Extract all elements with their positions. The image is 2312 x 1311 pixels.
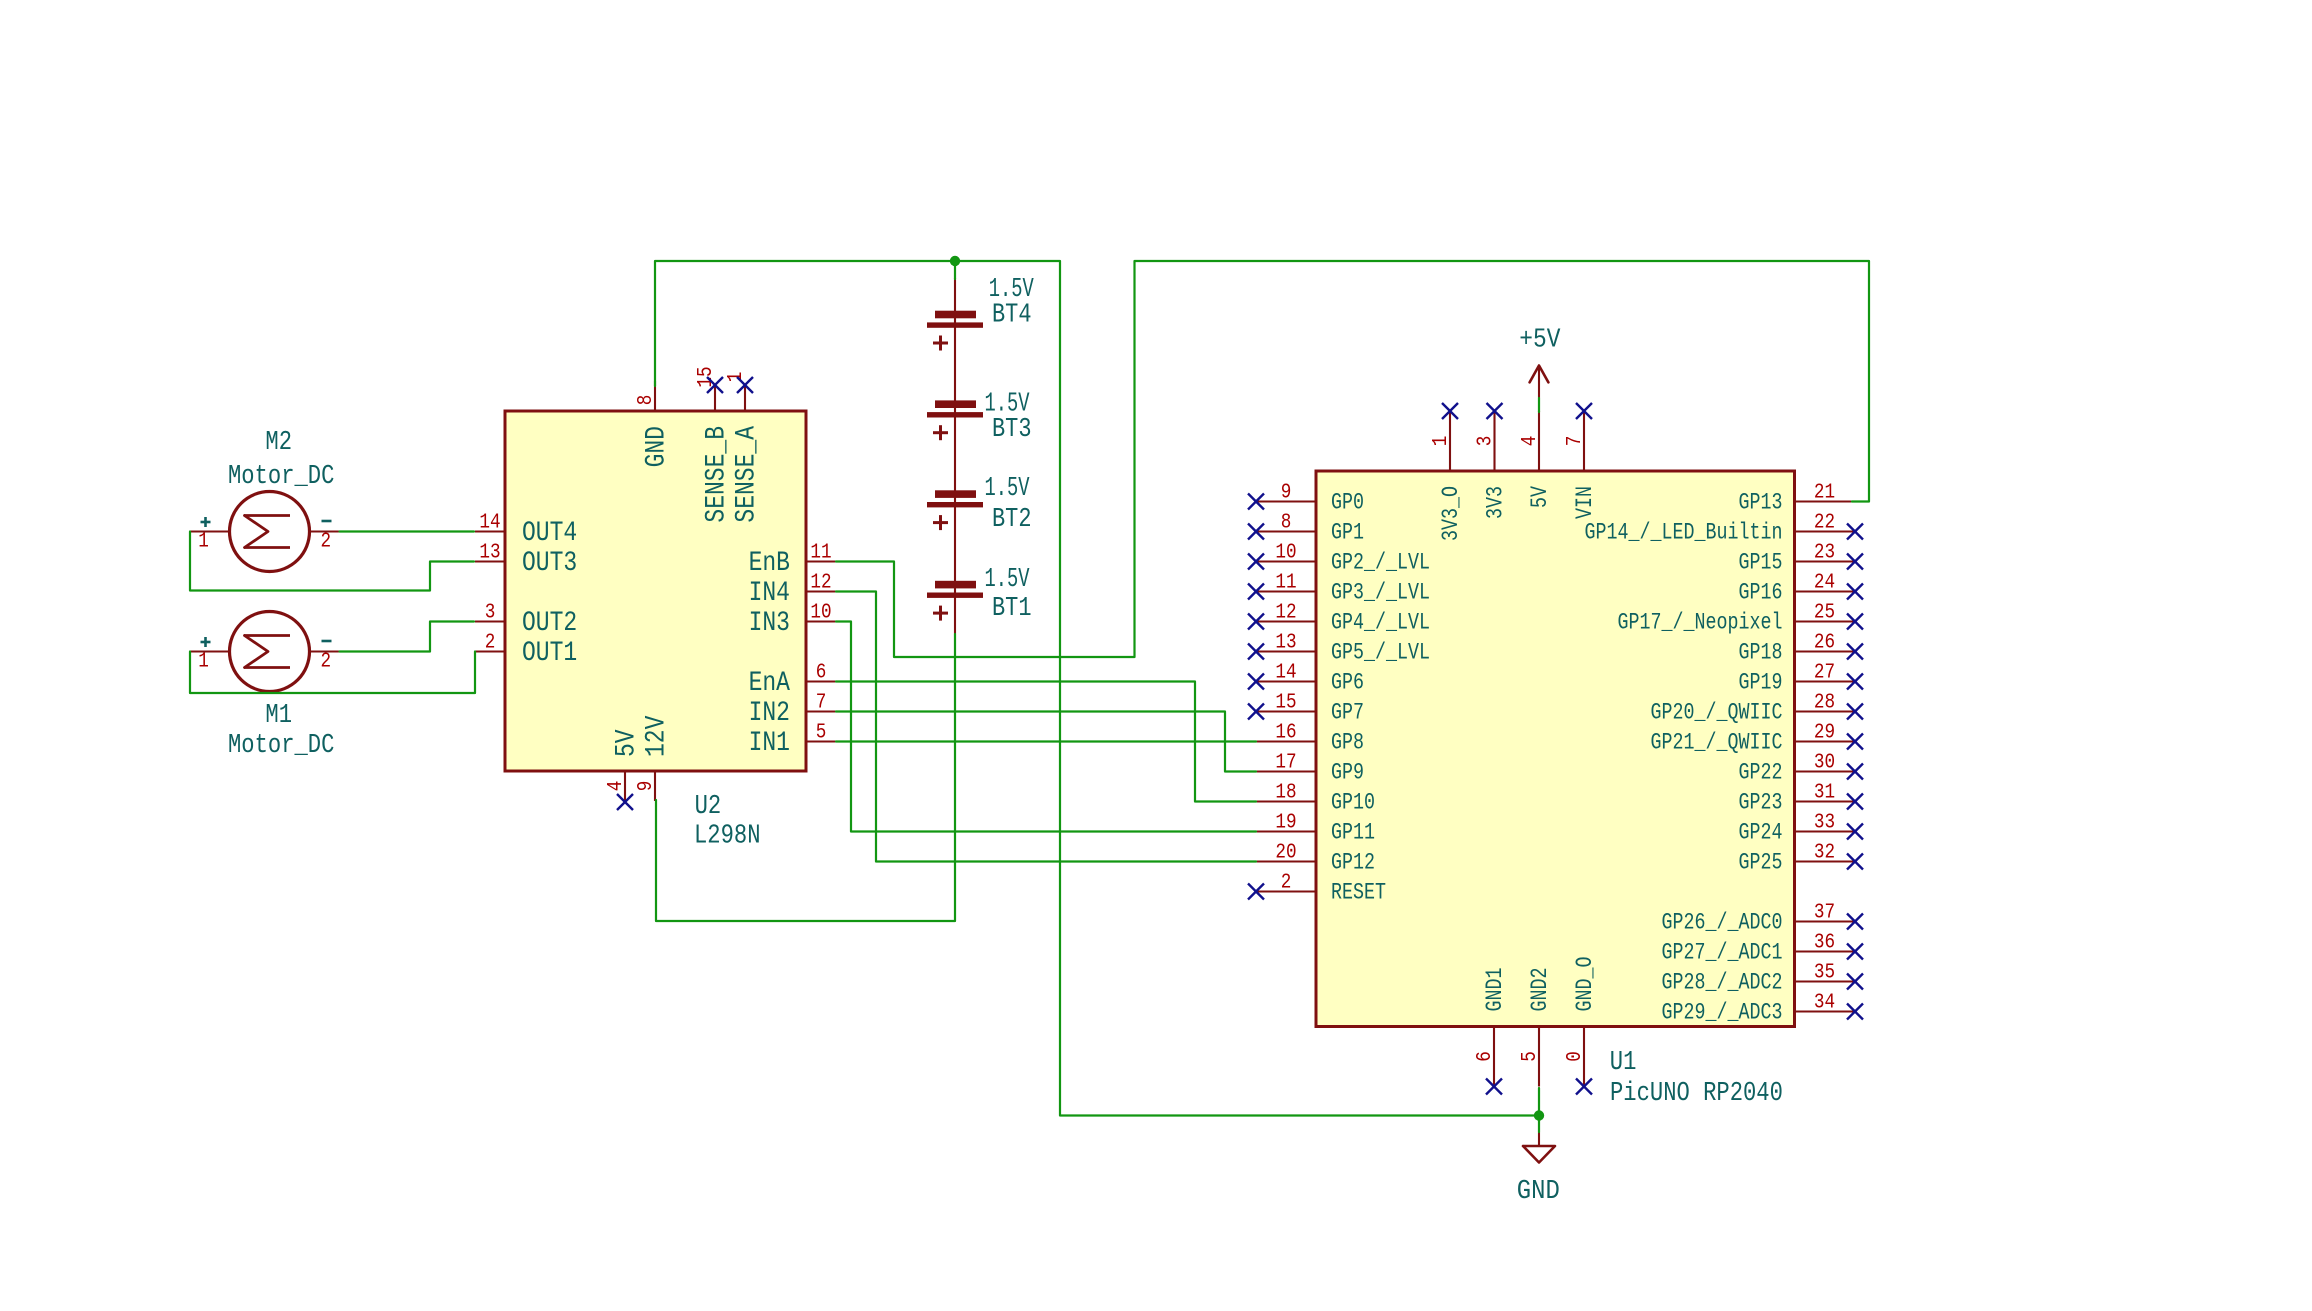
svg-text:5: 5 [1519, 1051, 1542, 1062]
svg-text:GP20_/_QWIIC: GP20_/_QWIIC [1651, 700, 1783, 726]
svg-text:26: 26 [1814, 632, 1835, 655]
svg-text:7: 7 [1564, 436, 1587, 447]
svg-text:BT3: BT3 [992, 415, 1032, 445]
svg-text:GP25: GP25 [1739, 850, 1783, 876]
svg-text:IN1: IN1 [749, 728, 790, 759]
svg-text:GND1: GND1 [1482, 968, 1508, 1012]
U1 pin 32 GP25 [1739, 842, 1855, 876]
no-connect U1 pin 29 GP21_/_QWIIC [1847, 734, 1863, 750]
U1 pin 20 GP12 [1256, 842, 1375, 876]
no-connect U1 pin 32 GP25 [1847, 854, 1863, 870]
U1 pin 25 GP17_/_Neopixel [1618, 602, 1855, 636]
svg-text:M1: M1 [265, 701, 292, 731]
U2 pin 1 SENSE_A (top) [725, 372, 763, 523]
U1 pin 7 VIN (top) [1564, 411, 1598, 519]
svg-text:29: 29 [1814, 722, 1835, 745]
no-connect U1 top pin 7 [1576, 403, 1592, 419]
battery cell BT2 [927, 490, 983, 530]
svg-text:5V: 5V [612, 729, 643, 757]
svg-text:IN3: IN3 [749, 608, 790, 639]
svg-text:13: 13 [479, 542, 500, 565]
svg-text:22: 22 [1814, 512, 1835, 535]
svg-text:IN2: IN2 [749, 698, 790, 729]
battery cell BT4 [927, 311, 983, 351]
svg-text:GP15: GP15 [1739, 550, 1783, 576]
svg-text:20: 20 [1275, 842, 1296, 865]
no-connect U1 pin 33 GP24 [1847, 824, 1863, 840]
svg-text:37: 37 [1814, 902, 1835, 925]
U1 pin 24 GP16 [1739, 572, 1855, 606]
svg-text:24: 24 [1814, 572, 1835, 595]
BT4 reference designator [992, 301, 1032, 331]
svg-text:GP4_/_LVL: GP4_/_LVL [1331, 610, 1430, 636]
no-connect U1 pin 8 GP1 [1248, 524, 1264, 540]
wire U2 IN4 pin 12 to U1 GP12 pin 20 [836, 592, 1256, 862]
no-connect U1 top pin 3 [1487, 403, 1503, 419]
svg-text:GP3_/_LVL: GP3_/_LVL [1331, 580, 1430, 606]
svg-text:2: 2 [1281, 872, 1292, 895]
svg-text:GP8: GP8 [1331, 730, 1364, 756]
U1 pin 36 GP27_/_ADC1 [1662, 932, 1855, 966]
U1 pin 31 GP23 [1739, 782, 1855, 816]
wire M1 pin 2 to U2 OUT2 pin 3 [340, 622, 475, 652]
svg-text:2: 2 [321, 650, 332, 673]
U1 pin 21 GP13 [1739, 482, 1855, 516]
BT4 value 1.5V [989, 275, 1035, 305]
U1 pin 17 GP9 [1256, 752, 1364, 786]
svg-text:25: 25 [1814, 602, 1835, 625]
U2 pin 13 OUT3 [475, 542, 577, 580]
svg-text:5V: 5V [1527, 486, 1553, 508]
svg-text:EnA: EnA [749, 668, 791, 699]
U1 pin 2 RESET [1256, 872, 1386, 906]
U1 pin 18 GP10 [1256, 782, 1375, 816]
svg-text:15: 15 [1275, 692, 1296, 715]
svg-text:GP6: GP6 [1331, 670, 1364, 696]
wire U2 IN3 pin 10 to U1 GP11 pin 19 [836, 622, 1256, 832]
svg-text:12: 12 [1275, 602, 1296, 625]
svg-text:RESET: RESET [1331, 880, 1386, 906]
junction at GND symbol (node GND) [1534, 1110, 1544, 1120]
M1 reference designator [265, 701, 292, 731]
U2 pin 2 OUT1 [475, 632, 577, 670]
motor M1 (Motor_DC) [190, 612, 340, 692]
svg-text:21: 21 [1814, 482, 1835, 505]
svg-text:14: 14 [1275, 662, 1296, 685]
U1 pin 34 GP29_/_ADC3 [1662, 992, 1855, 1026]
U1 value PicUNO RP2040 [1610, 1079, 1783, 1109]
svg-text:GP18: GP18 [1739, 640, 1783, 666]
svg-text:GP28_/_ADC2: GP28_/_ADC2 [1662, 970, 1783, 996]
svg-text:GND2: GND2 [1527, 968, 1553, 1012]
svg-text:3: 3 [1475, 436, 1498, 447]
U2 reference designator [695, 792, 722, 822]
svg-text:8: 8 [1281, 512, 1292, 535]
svg-text:EnB: EnB [749, 548, 790, 579]
U1 pin 8 GP1 [1256, 512, 1364, 546]
svg-text:GP24: GP24 [1739, 820, 1783, 846]
no-connect U1 bottom pin 6 [1486, 1079, 1502, 1095]
svg-text:GP19: GP19 [1739, 670, 1783, 696]
U2 pin 4 5V (bottom) [605, 729, 643, 801]
svg-text:GP22: GP22 [1739, 760, 1783, 786]
U2 pin 15 SENSE_B (top) [695, 366, 733, 522]
wire U2 pin 8 GND to junction above battery [655, 261, 955, 386]
svg-text:GP16: GP16 [1739, 580, 1783, 606]
wire M1 pin 1 to U2 OUT1 pin 2 [190, 652, 475, 694]
no-connect U1 pin 37 GP26_/_ADC0 [1847, 914, 1863, 930]
svg-text:4: 4 [605, 781, 628, 792]
battery cell BT3 [927, 400, 983, 440]
svg-text:1: 1 [198, 650, 209, 673]
no-connect U1 pin 35 GP28_/_ADC2 [1847, 974, 1863, 990]
no-connect U1 pin 10 GP2_/_LVL [1248, 554, 1264, 570]
U1 reference designator [1610, 1048, 1637, 1078]
svg-text:BT4: BT4 [992, 301, 1032, 331]
svg-text:PicUNO RP2040: PicUNO RP2040 [1610, 1079, 1783, 1109]
wire junction to battery BT4 + terminal [954, 261, 956, 279]
U1 pin 27 GP19 [1739, 662, 1855, 696]
battery cell BT1 [927, 581, 983, 621]
U1 pin 0 GND_O (bottom) [1564, 957, 1598, 1087]
svg-text:16: 16 [1275, 722, 1296, 745]
no-connect U1 pin 15 GP7 [1248, 704, 1264, 720]
U1 pin 28 GP20_/_QWIIC [1651, 692, 1855, 726]
junction at battery + / GND net (node +6V) [950, 256, 960, 266]
svg-text:23: 23 [1814, 542, 1835, 565]
U1 pin 10 GP2_/_LVL [1256, 542, 1430, 576]
svg-text:GP23: GP23 [1739, 790, 1783, 816]
svg-text:GP9: GP9 [1331, 760, 1364, 786]
no-connect U1 pin 14 GP6 [1248, 674, 1264, 690]
svg-text:12: 12 [810, 572, 831, 595]
no-connect U1 pin 36 GP27_/_ADC1 [1847, 944, 1863, 960]
U1 pin 12 GP4_/_LVL [1256, 602, 1430, 636]
U1 pin 16 GP8 [1256, 722, 1364, 756]
U1 pin 4 5V (top) [1519, 411, 1553, 508]
no-connect U1 top pin 1 [1442, 403, 1458, 419]
svg-text:7: 7 [816, 692, 827, 715]
svg-text:14: 14 [479, 512, 500, 535]
svg-text:IN4: IN4 [749, 578, 790, 609]
BT3 reference designator [992, 415, 1032, 445]
wire battery + rail to GND junction (net GND) [955, 261, 1539, 1116]
svg-text:SENSE_A: SENSE_A [732, 426, 763, 523]
U1 pin 19 GP11 [1256, 812, 1375, 846]
svg-text:GP13: GP13 [1739, 490, 1783, 516]
svg-text:GND: GND [1517, 1177, 1560, 1207]
wire U2 IN2 pin 7 to U1 GP9 pin 17 [836, 712, 1256, 772]
U1 pin 11 GP3_/_LVL [1256, 572, 1430, 606]
no-connect U1 pin 34 GP29_/_ADC3 [1847, 1004, 1863, 1020]
no-connect U2 pin 4 5V [617, 794, 633, 810]
svg-text:GP14_/_LED_Builtin: GP14_/_LED_Builtin [1585, 520, 1783, 546]
svg-text:31: 31 [1814, 782, 1835, 805]
svg-text:5: 5 [816, 722, 827, 745]
U2 pin 11 EnB [749, 542, 836, 580]
U2 pin 14 OUT4 [475, 512, 577, 550]
U1 pin 13 GP5_/_LVL [1256, 632, 1430, 666]
svg-text:BT2: BT2 [992, 505, 1032, 535]
svg-text:SENSE_B: SENSE_B [702, 426, 733, 523]
wire battery - terminal to U2 pin 9 12V [656, 634, 955, 921]
svg-text:12V: 12V [642, 715, 673, 757]
IC U1 PicUNO RP2040 body [1316, 471, 1795, 1027]
U1 pin 37 GP26_/_ADC0 [1662, 902, 1855, 936]
U1 pin 33 GP24 [1739, 812, 1855, 846]
svg-text:GP21_/_QWIIC: GP21_/_QWIIC [1651, 730, 1783, 756]
U1 pin 15 GP7 [1256, 692, 1364, 726]
svg-text:33: 33 [1814, 812, 1835, 835]
svg-text:GP12: GP12 [1331, 850, 1375, 876]
U2 pin 12 IN4 [749, 572, 836, 610]
svg-text:BT1: BT1 [992, 594, 1032, 624]
no-connect U1 pin 26 GP18 [1847, 644, 1863, 660]
svg-text:28: 28 [1814, 692, 1835, 715]
U2 pin 6 EnA [749, 662, 836, 700]
svg-text:18: 18 [1275, 782, 1296, 805]
svg-text:GP1: GP1 [1331, 520, 1364, 546]
svg-text:GP17_/_Neopixel: GP17_/_Neopixel [1618, 610, 1783, 636]
no-connect U1 pin 2 RESET [1248, 884, 1264, 900]
svg-text:U1: U1 [1610, 1048, 1637, 1078]
IC U2 L298N motor driver body [505, 411, 806, 771]
svg-text:GND_O: GND_O [1572, 957, 1598, 1012]
svg-text:27: 27 [1814, 662, 1835, 685]
svg-text:VIN: VIN [1572, 486, 1598, 519]
svg-text:+5V: +5V [1519, 325, 1561, 355]
svg-text:35: 35 [1814, 962, 1835, 985]
svg-text:2: 2 [321, 530, 332, 553]
svg-text:3V3_O: 3V3_O [1438, 486, 1464, 541]
U1 pin 22 GP14_/_LED_Builtin [1585, 512, 1855, 546]
BT2 reference designator [992, 505, 1032, 535]
svg-text:GP27_/_ADC1: GP27_/_ADC1 [1662, 940, 1783, 966]
wire U1 GND2 pin 5 to GND symbol [1538, 1088, 1540, 1132]
svg-text:9: 9 [635, 781, 658, 792]
U2 pin 9 12V (bottom) [635, 715, 673, 801]
svg-text:10: 10 [810, 602, 831, 625]
battery stack pin line [954, 278, 956, 634]
svg-text:GP5_/_LVL: GP5_/_LVL [1331, 640, 1430, 666]
U1 pin 1 3V3_O (top) [1430, 411, 1464, 541]
svg-text:32: 32 [1814, 842, 1835, 865]
svg-text:OUT4: OUT4 [522, 518, 577, 549]
svg-text:GP0: GP0 [1331, 490, 1364, 516]
BT1 reference designator [992, 594, 1032, 624]
svg-text:OUT3: OUT3 [522, 548, 577, 579]
svg-text:1.5V: 1.5V [985, 474, 1031, 504]
no-connect U2 pin 1 SENSE_A [737, 377, 753, 393]
svg-text:M2: M2 [265, 428, 292, 458]
no-connect U1 pin 11 GP3_/_LVL [1248, 584, 1264, 600]
svg-text:1.5V: 1.5V [985, 565, 1031, 595]
no-connect U1 pin 25 GP17_/_Neopixel [1847, 614, 1863, 630]
svg-text:1: 1 [1430, 436, 1453, 447]
svg-text:Motor_DC: Motor_DC [228, 462, 334, 492]
U2 pin 3 OUT2 [475, 602, 577, 640]
svg-text:2: 2 [485, 632, 496, 655]
svg-text:6: 6 [1474, 1051, 1497, 1062]
no-connect U1 pin 23 GP15 [1847, 554, 1863, 570]
svg-text:17: 17 [1275, 752, 1296, 775]
svg-text:1: 1 [725, 372, 748, 383]
svg-text:10: 10 [1275, 542, 1296, 565]
U2 pin 7 IN2 [749, 692, 836, 730]
wire M2 pin 2 to U2 OUT4 pin 14 [340, 530, 475, 532]
U1 pin 9 GP0 [1256, 482, 1364, 516]
svg-text:OUT1: OUT1 [522, 638, 577, 669]
U1 pin 23 GP15 [1739, 542, 1855, 576]
no-connect U1 pin 9 GP0 [1248, 494, 1264, 510]
svg-text:9: 9 [1281, 482, 1292, 505]
svg-text:11: 11 [1275, 572, 1296, 595]
no-connect U1 pin 27 GP19 [1847, 674, 1863, 690]
BT1 value 1.5V [985, 565, 1031, 595]
U1 pin 30 GP22 [1739, 752, 1855, 786]
svg-text:19: 19 [1275, 812, 1296, 835]
svg-text:GP29_/_ADC3: GP29_/_ADC3 [1662, 1000, 1783, 1026]
no-connect U1 pin 28 GP20_/_QWIIC [1847, 704, 1863, 720]
svg-text:GP11: GP11 [1331, 820, 1375, 846]
U1 pin 3 3V3 (top) [1475, 411, 1509, 519]
svg-text:4: 4 [1519, 436, 1542, 447]
BT2 value 1.5V [985, 474, 1031, 504]
svg-text:GND: GND [642, 426, 673, 467]
no-connect U1 pin 12 GP4_/_LVL [1248, 614, 1264, 630]
U2 pin 10 IN3 [749, 602, 836, 640]
U1 pin 5 GND2 (bottom) [1519, 968, 1553, 1087]
svg-text:36: 36 [1814, 932, 1835, 955]
svg-text:1: 1 [198, 530, 209, 553]
wire U2 IN1 pin 5 to U1 GP8 pin 16 [836, 740, 1256, 742]
no-connect U2 pin 15 SENSE_B [707, 377, 723, 393]
U1 pin 26 GP18 [1739, 632, 1855, 666]
motor M2 (Motor_DC) [190, 492, 340, 572]
svg-text:GP7: GP7 [1331, 700, 1364, 726]
U2 pin 8 GND (top) [635, 381, 673, 467]
svg-text:3V3: 3V3 [1483, 486, 1509, 519]
no-connect U1 pin 31 GP23 [1847, 794, 1863, 810]
power symbol GND [1517, 1132, 1560, 1207]
svg-text:GP10: GP10 [1331, 790, 1375, 816]
svg-text:8: 8 [635, 395, 658, 406]
svg-text:OUT2: OUT2 [522, 608, 577, 639]
svg-text:U2: U2 [695, 792, 722, 822]
U2 pin 5 IN1 [749, 722, 836, 760]
no-connect U1 bottom pin 0 [1576, 1079, 1592, 1095]
svg-text:0: 0 [1564, 1051, 1587, 1062]
U2 value L298N [694, 822, 761, 852]
svg-text:11: 11 [810, 542, 831, 565]
svg-text:Motor_DC: Motor_DC [228, 731, 334, 761]
svg-text:3: 3 [485, 602, 496, 625]
no-connect U1 pin 22 GP14_/_LED_Builtin [1847, 524, 1863, 540]
svg-text:GP26_/_ADC0: GP26_/_ADC0 [1662, 910, 1783, 936]
wire +5V symbol to U1 5V pin 4 [1538, 398, 1540, 412]
wire U2 EnB pin 11 to U1 GP13 pin 21 [836, 261, 1869, 657]
svg-text:6: 6 [816, 662, 827, 685]
M2 reference designator [265, 428, 292, 458]
svg-text:13: 13 [1275, 632, 1296, 655]
BT3 value 1.5V [985, 390, 1031, 420]
no-connect U1 pin 24 GP16 [1847, 584, 1863, 600]
svg-text:34: 34 [1814, 992, 1835, 1015]
U1 pin 6 GND1 (bottom) [1474, 968, 1508, 1087]
wire U2 EnA pin 6 to U1 GP10 pin 18 [836, 682, 1256, 802]
M2 value Motor_DC [228, 462, 334, 492]
U1 pin 14 GP6 [1256, 662, 1364, 696]
svg-text:30: 30 [1814, 752, 1835, 775]
power symbol +5V [1519, 325, 1561, 398]
svg-text:GP2_/_LVL: GP2_/_LVL [1331, 550, 1430, 576]
svg-text:L298N: L298N [694, 822, 761, 852]
wire M2 pin 1 to U2 OUT3 pin 13 [190, 532, 474, 591]
no-connect U1 pin 13 GP5_/_LVL [1248, 644, 1264, 660]
no-connect U1 pin 30 GP22 [1847, 764, 1863, 780]
M1 value Motor_DC [228, 731, 334, 761]
U1 pin 29 GP21_/_QWIIC [1651, 722, 1855, 756]
U1 pin 35 GP28_/_ADC2 [1662, 962, 1855, 996]
